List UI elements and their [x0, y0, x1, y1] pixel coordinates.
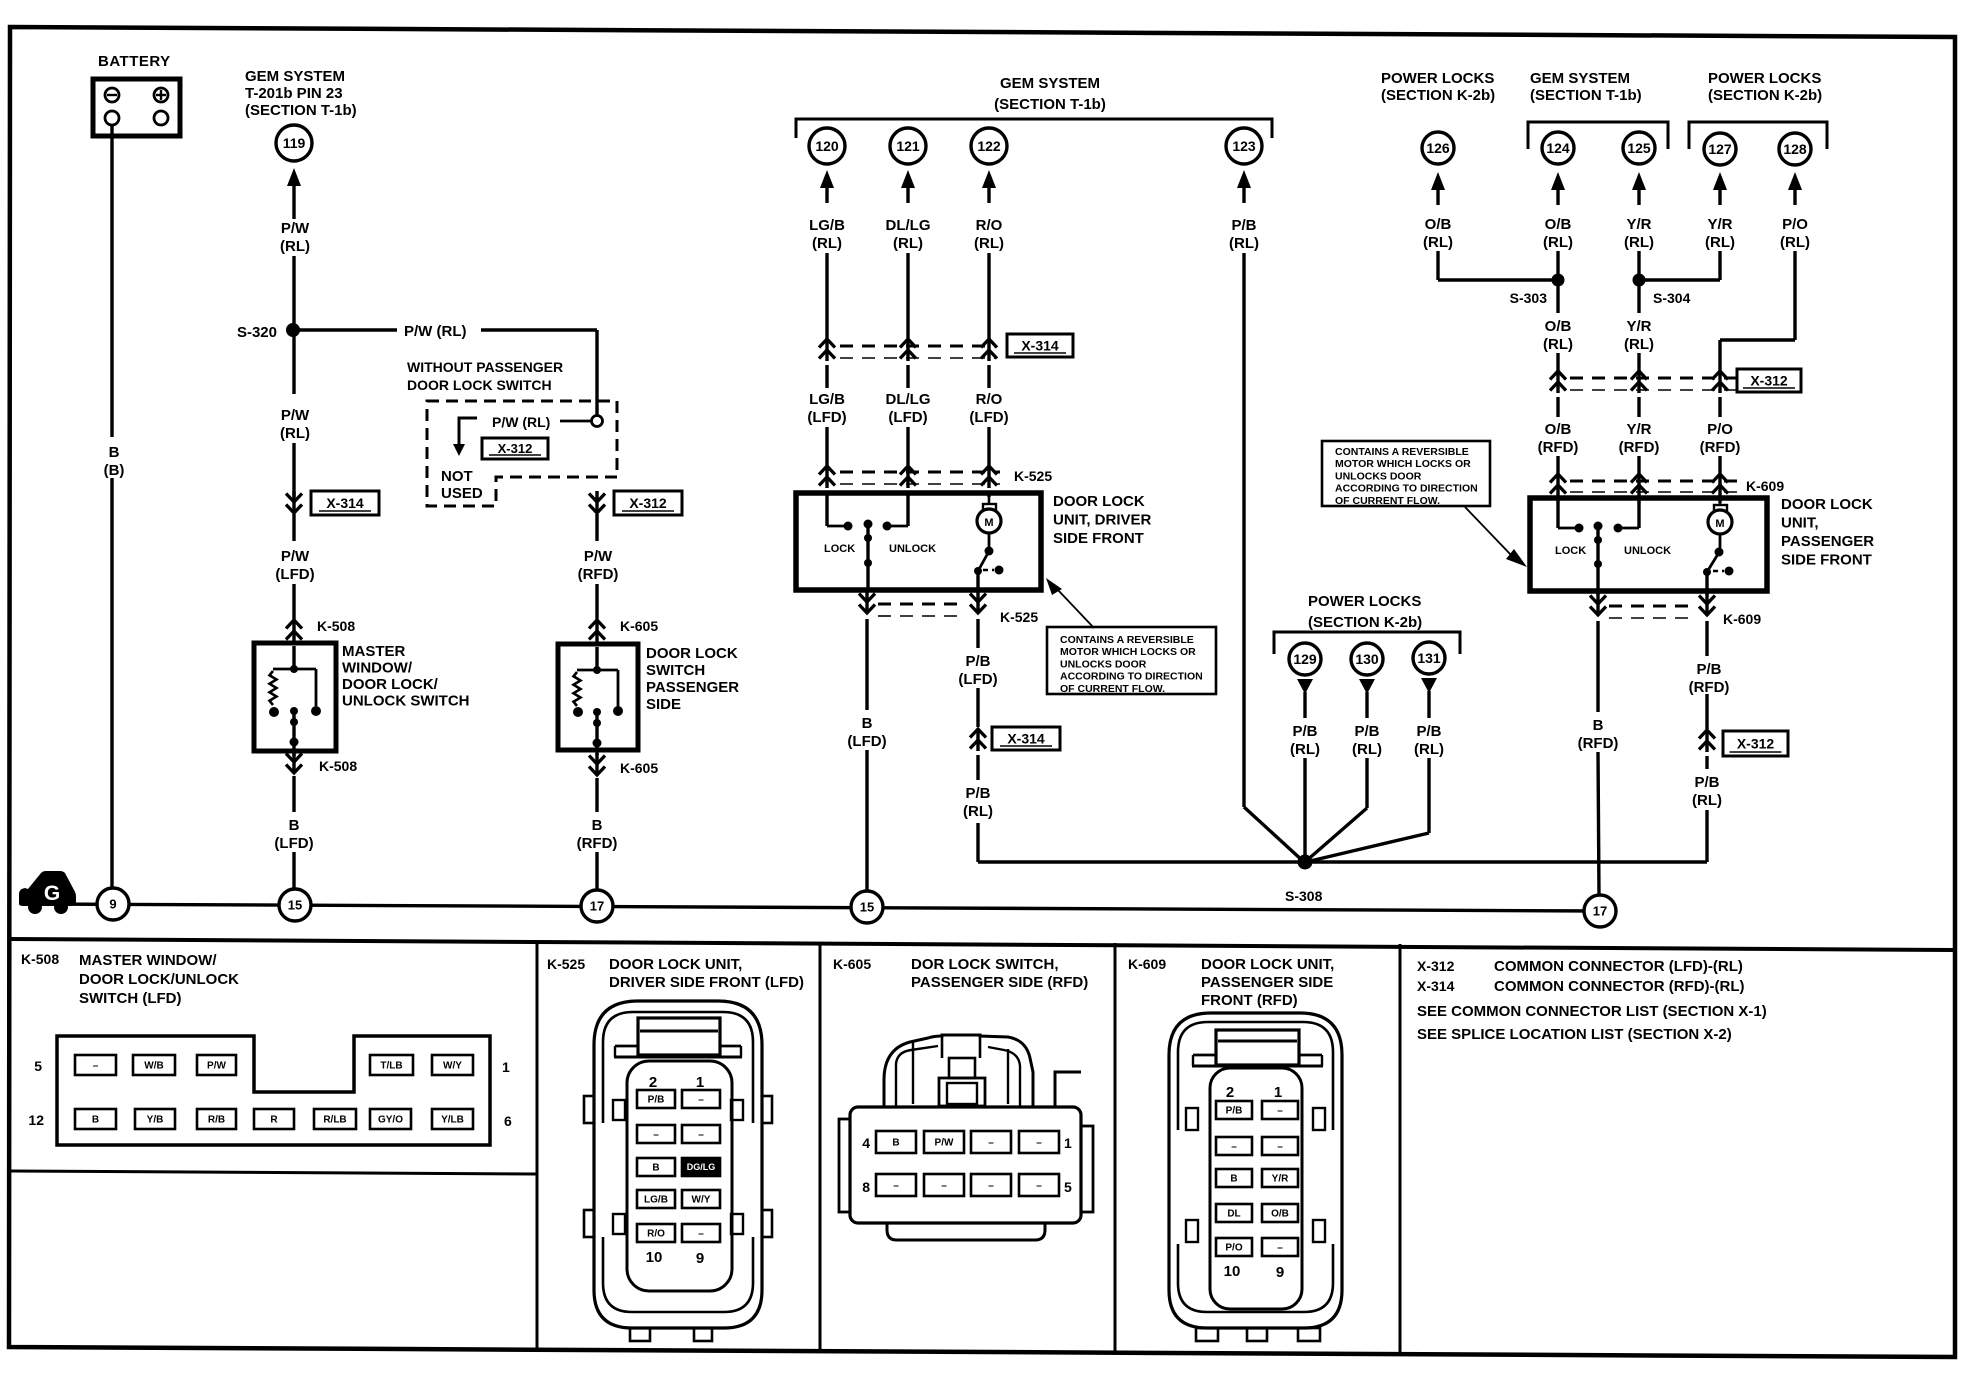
- K-605 pin r2c4: [1019, 1174, 1059, 1196]
- wire 122 into box: [987, 491, 990, 497]
- svg-text:(SECTION T-1b): (SECTION T-1b): [245, 102, 357, 119]
- arrow to 120: [820, 170, 834, 203]
- wire 127 to S-304: [1639, 251, 1720, 280]
- svg-text:R/O: R/O: [976, 391, 1003, 408]
- svg-text:K-609: K-609: [1746, 478, 1784, 494]
- svg-text:SWITCH: SWITCH: [646, 662, 705, 679]
- label door lock switch passenger: [646, 645, 739, 713]
- svg-text:DRIVER SIDE FRONT (LFD): DRIVER SIDE FRONT (LFD): [609, 974, 804, 991]
- svg-text:GEM SYSTEM: GEM SYSTEM: [1530, 70, 1630, 87]
- switch K-605 internals: [573, 647, 623, 755]
- svg-text:T-201b PIN 23: T-201b PIN 23: [245, 85, 343, 102]
- K-508 pin r2c7 Y/LB: [432, 1109, 473, 1129]
- wire 119 to S-320: [292, 256, 295, 330]
- svg-text:UNIT, DRIVER: UNIT, DRIVER: [1053, 512, 1152, 529]
- svg-text:UNLOCK: UNLOCK: [889, 543, 936, 555]
- connector X-312 single chevrons: [1699, 730, 1715, 752]
- K-605 pin r2c2: [924, 1174, 964, 1196]
- svg-text:K-525: K-525: [1014, 468, 1052, 484]
- svg-text:(RL): (RL): [1414, 741, 1444, 758]
- connector K-525 bottom chevrons: [859, 591, 986, 613]
- label without passenger door lock switch: [407, 359, 563, 393]
- svg-text:9: 9: [109, 897, 116, 912]
- svg-text:129: 129: [1293, 651, 1317, 667]
- svg-text:P/W: P/W: [584, 548, 613, 565]
- svg-text:POWER LOCKS: POWER LOCKS: [1381, 70, 1494, 87]
- label Y/R (RL) 125: [1624, 216, 1654, 251]
- svg-text:NOT: NOT: [441, 468, 473, 485]
- svg-text:B: B: [892, 1138, 899, 1149]
- svg-text:K-605: K-605: [620, 760, 658, 776]
- svg-text:(RL): (RL): [1624, 234, 1654, 251]
- svg-text:(RL): (RL): [1780, 234, 1810, 251]
- K-605 pin r1c4: [1019, 1131, 1059, 1153]
- svg-text:GY/O: GY/O: [378, 1115, 403, 1126]
- svg-text:S-303: S-303: [1510, 290, 1548, 306]
- K-605 pin r2c1: [876, 1174, 916, 1196]
- svg-text:(LFD): (LFD): [275, 566, 314, 583]
- wire 127 seg3: [1718, 456, 1721, 474]
- svg-text:UNLOCKS DOOR: UNLOCKS DOOR: [1335, 470, 1422, 482]
- svg-text:P/O: P/O: [1782, 216, 1808, 233]
- wire S-320 down: [292, 330, 295, 497]
- svg-text:COMMON CONNECTOR (LFD)-(RL): COMMON CONNECTOR (LFD)-(RL): [1494, 958, 1743, 975]
- bracket GEM middle: [796, 119, 1272, 138]
- svg-text:MOTOR WHICH LOCKS OR: MOTOR WHICH LOCKS OR: [1060, 646, 1196, 658]
- svg-text:MOTOR WHICH LOCKS OR: MOTOR WHICH LOCKS OR: [1335, 458, 1471, 470]
- K-605 connector body: [850, 1107, 1081, 1223]
- label LG/B (LFD): [807, 391, 846, 426]
- motor M driver: [974, 497, 1004, 591]
- wire to ground 17: [595, 852, 598, 889]
- svg-text:POWER LOCKS: POWER LOCKS: [1308, 593, 1421, 610]
- svg-text:X-314: X-314: [1021, 338, 1059, 354]
- svg-text:(RL): (RL): [963, 803, 993, 820]
- svg-text:DOOR LOCK/UNLOCK: DOOR LOCK/UNLOCK: [79, 971, 239, 988]
- ground node 17 right: [1584, 895, 1616, 927]
- svg-text:PASSENGER SIDE: PASSENGER SIDE: [1201, 974, 1333, 991]
- connector K-609 row chevrons: [1550, 474, 1728, 496]
- svg-text:–: –: [1277, 1142, 1283, 1153]
- wire 122 seg: [987, 253, 990, 339]
- svg-text:9: 9: [1276, 1264, 1284, 1281]
- K-609 pin cavity: [1210, 1068, 1302, 1309]
- svg-text:LG/B: LG/B: [809, 217, 845, 234]
- bottom section divider: [10, 939, 1955, 950]
- svg-text:P/B: P/B: [965, 653, 990, 670]
- bracket power locks mid: [1274, 632, 1460, 654]
- K-525 pin r3R DG/LG: [682, 1158, 720, 1176]
- svg-text:X-312: X-312: [1417, 958, 1455, 974]
- note box passenger: [1322, 441, 1490, 507]
- wire 125 seg3: [1637, 456, 1640, 474]
- wire 127 into box: [1718, 498, 1721, 503]
- svg-text:–: –: [1036, 1181, 1042, 1192]
- wire 120 seg: [825, 253, 828, 339]
- svg-text:–: –: [653, 1130, 659, 1141]
- node 122: [971, 128, 1007, 164]
- svg-text:(RFD): (RFD): [1578, 735, 1619, 752]
- wire 124 through S-303: [1556, 251, 1559, 313]
- wire S-320 branch right seg2: [481, 330, 597, 416]
- svg-text:–: –: [93, 1061, 99, 1072]
- unit passenger LOCK contact: [1555, 502, 1586, 557]
- note arrow driver: [1046, 578, 1094, 628]
- note arrow passenger: [1465, 507, 1527, 567]
- wire 121 seg: [906, 253, 909, 339]
- unit passenger switch pole: [1594, 522, 1603, 596]
- K-508 pin r2c5 R/LB: [314, 1109, 356, 1129]
- svg-text:(RL): (RL): [893, 235, 923, 252]
- svg-text:POWER LOCKS: POWER LOCKS: [1708, 70, 1821, 87]
- svg-text:Y/R: Y/R: [1626, 318, 1651, 335]
- svg-text:B: B: [1593, 717, 1604, 734]
- K-525 pin r4L LG/B: [637, 1190, 675, 1208]
- svg-text:P/O: P/O: [1707, 421, 1733, 438]
- svg-text:(RL): (RL): [974, 235, 1004, 252]
- connector X-312 left chevrons: [589, 491, 605, 513]
- svg-text:P/B: P/B: [1292, 723, 1317, 740]
- arrow from 130: [1359, 679, 1375, 718]
- wire battery B(B) upper: [110, 124, 113, 437]
- wire 124 seg3: [1556, 456, 1559, 474]
- svg-text:S-304: S-304: [1653, 290, 1691, 306]
- wire 124 into box: [1556, 498, 1559, 503]
- label B (RFD) left: [577, 817, 618, 852]
- K-525 connector inner top: [603, 1012, 753, 1123]
- K-609 bottom tabs: [1196, 1328, 1320, 1341]
- wire 120 into box: [825, 491, 828, 497]
- svg-text:1: 1: [1064, 1135, 1072, 1151]
- label K-605 title: [911, 956, 1088, 991]
- K-609 connector outer: [1169, 1013, 1342, 1328]
- wire 123 long: [1244, 253, 1304, 862]
- svg-text:PASSENGER: PASSENGER: [1781, 533, 1874, 550]
- svg-text:(SECTION K-2b): (SECTION K-2b): [1308, 614, 1422, 631]
- door lock unit driver box K-525: [796, 493, 1041, 590]
- svg-text:O/B: O/B: [1271, 1209, 1289, 1220]
- svg-text:P/W: P/W: [281, 220, 310, 237]
- ground node 15 mid: [851, 891, 883, 923]
- svg-text:(B): (B): [104, 462, 125, 479]
- connector K-609 row dashes: [1570, 481, 1740, 492]
- svg-text:12: 12: [28, 1112, 44, 1128]
- wire K-508 to label: [292, 776, 295, 812]
- svg-text:(RL): (RL): [1423, 234, 1453, 251]
- svg-text:(SECTION K-2b): (SECTION K-2b): [1708, 87, 1822, 104]
- GEM SYSTEM T-201b header: [245, 68, 357, 119]
- label LG/B (RL): [809, 217, 845, 252]
- wire S-320 branch right seg1: [293, 328, 397, 331]
- label O/B (RL) lower: [1543, 318, 1573, 353]
- K-525 pin r5L R/O: [637, 1224, 675, 1242]
- svg-text:–: –: [988, 1181, 994, 1192]
- wire 127 seg2: [1718, 397, 1721, 417]
- svg-text:120: 120: [815, 138, 839, 154]
- K-609 connector inner bottom: [1178, 1244, 1333, 1312]
- node 130: [1351, 643, 1383, 675]
- svg-text:S-320: S-320: [237, 324, 277, 341]
- svg-text:P/W: P/W: [281, 407, 310, 424]
- arrow to 127: [1713, 172, 1727, 205]
- wire 121 seg3: [906, 427, 909, 466]
- connector X-314 left label: [311, 491, 379, 515]
- bottom divider v3: [1114, 943, 1117, 1352]
- svg-text:B: B: [92, 1115, 99, 1126]
- K-525 pin r5R: [682, 1224, 720, 1242]
- wire 125 into box: [1637, 498, 1640, 503]
- connector K-508 bottom chevrons: [286, 751, 302, 773]
- svg-text:(RFD): (RFD): [578, 566, 619, 583]
- svg-text:O/B: O/B: [1545, 318, 1572, 335]
- svg-text:X-314: X-314: [1007, 731, 1045, 747]
- dashed option box: [427, 401, 617, 506]
- svg-text:USED: USED: [441, 485, 483, 502]
- svg-text:CONTAINS A REVERSIBLE: CONTAINS A REVERSIBLE: [1060, 634, 1194, 646]
- label Y/R (RL) 127: [1705, 216, 1735, 251]
- svg-text:122: 122: [977, 138, 1001, 154]
- label B (LFD): [847, 715, 886, 750]
- svg-text:DL/LG: DL/LG: [886, 217, 931, 234]
- svg-text:R/B: R/B: [208, 1115, 225, 1126]
- svg-text:5: 5: [1064, 1179, 1072, 1195]
- svg-text:LG/B: LG/B: [809, 391, 845, 408]
- svg-text:(RL): (RL): [1692, 792, 1722, 809]
- POWER LOCKS right1 header: [1381, 70, 1495, 104]
- connector K-508 top chevrons: [286, 620, 302, 642]
- svg-text:DOOR LOCK: DOOR LOCK: [1053, 493, 1145, 510]
- svg-text:W/B: W/B: [144, 1061, 163, 1072]
- svg-text:W/Y: W/Y: [443, 1061, 462, 1072]
- K-609 pin r1R: [1262, 1101, 1298, 1119]
- open node on X-312 wire: [592, 416, 603, 427]
- label K-525 title: [609, 956, 804, 991]
- label Y/R (RFD): [1619, 421, 1660, 456]
- svg-text:(RFD): (RFD): [1619, 439, 1660, 456]
- svg-text:P/B: P/B: [1354, 723, 1379, 740]
- svg-text:Y/R: Y/R: [1626, 216, 1651, 233]
- svg-text:P/W: P/W: [207, 1061, 226, 1072]
- svg-text:P/W: P/W: [281, 548, 310, 565]
- svg-text:OF CURRENT FLOW.: OF CURRENT FLOW.: [1335, 495, 1440, 507]
- label P/B (RL) 123: [1229, 217, 1259, 252]
- svg-text:P/W (RL): P/W (RL): [404, 323, 466, 340]
- wire 122 seg3: [987, 427, 990, 466]
- svg-text:1: 1: [696, 1074, 704, 1091]
- K-525 bottom tabs: [630, 1328, 712, 1341]
- GEM SYSTEM middle header: [994, 75, 1106, 113]
- svg-text:15: 15: [860, 900, 874, 915]
- svg-text:ACCORDING TO DIRECTION: ACCORDING TO DIRECTION: [1060, 671, 1203, 683]
- connector K-609 bottom chevrons: [1590, 593, 1715, 615]
- label P/W (RL) upper: [280, 220, 310, 255]
- wire S-308 to passenger: [1305, 810, 1707, 862]
- wire 128 bend: [1720, 251, 1795, 371]
- label P/B (RL) 130: [1352, 723, 1382, 758]
- svg-text:Y/LB: Y/LB: [441, 1115, 464, 1126]
- connector K-525 row dashes: [840, 472, 1000, 484]
- K-609 pin r5L P/O: [1216, 1238, 1252, 1256]
- wire to open node: [560, 420, 591, 423]
- arrow from 131: [1421, 678, 1437, 718]
- splice S-304: [1633, 274, 1691, 307]
- node 120: [809, 128, 845, 164]
- svg-text:(LFD): (LFD): [969, 409, 1008, 426]
- label P/B (RL) 131: [1414, 723, 1444, 758]
- svg-text:OF CURRENT FLOW.: OF CURRENT FLOW.: [1060, 683, 1165, 695]
- label B (RFD): [1578, 717, 1619, 752]
- node 119: [276, 125, 312, 161]
- wire 131 to S-308: [1306, 758, 1429, 862]
- svg-text:2: 2: [649, 1074, 657, 1091]
- arrow to 122: [982, 170, 996, 203]
- svg-text:SIDE: SIDE: [646, 696, 681, 713]
- svg-text:(RL): (RL): [280, 425, 310, 442]
- K-609 pin r1L P/B: [1216, 1101, 1252, 1119]
- K-508 connector outline: [57, 1036, 490, 1145]
- svg-text:4: 4: [862, 1135, 870, 1151]
- connector X-312 row chevrons: [1550, 371, 1728, 393]
- wire P/B RFD seg2: [1705, 694, 1708, 729]
- connector X-312 single label: [1723, 731, 1788, 756]
- svg-text:X-312: X-312: [1750, 373, 1788, 389]
- svg-text:(SECTION T-1b): (SECTION T-1b): [1530, 87, 1642, 104]
- svg-text:K-609: K-609: [1723, 611, 1761, 627]
- K-508 pin r2c1 B: [75, 1109, 116, 1129]
- label P/B (RL) 129: [1290, 723, 1320, 758]
- svg-text:R: R: [270, 1115, 278, 1126]
- svg-text:Y/R: Y/R: [1707, 216, 1732, 233]
- svg-text:(RL): (RL): [280, 238, 310, 255]
- svg-text:10: 10: [646, 1249, 663, 1266]
- svg-text:DOOR LOCK SWITCH: DOOR LOCK SWITCH: [407, 377, 552, 393]
- connector X-314 row chevrons: [819, 339, 997, 361]
- K-508 pin r1c4 T/LB: [370, 1055, 413, 1075]
- svg-text:(RL): (RL): [1543, 234, 1573, 251]
- K-609 pin r5R: [1262, 1238, 1298, 1256]
- svg-text:–: –: [988, 1138, 994, 1149]
- arrow to 119: [287, 168, 301, 219]
- svg-text:WITHOUT PASSENGER: WITHOUT PASSENGER: [407, 359, 563, 375]
- svg-text:LG/B: LG/B: [644, 1195, 668, 1206]
- POWER LOCKS mid header: [1308, 593, 1422, 631]
- not-used bent arrow: [453, 418, 477, 456]
- svg-text:P/B: P/B: [965, 785, 990, 802]
- svg-text:DL/LG: DL/LG: [886, 391, 931, 408]
- K-605 pin r1c1 B: [876, 1131, 916, 1153]
- svg-text:LOCK: LOCK: [1555, 545, 1586, 557]
- bracket 124-125: [1528, 122, 1668, 149]
- node 121: [890, 128, 926, 164]
- svg-text:GEM SYSTEM: GEM SYSTEM: [245, 68, 345, 85]
- K-525 side ears: [584, 1096, 772, 1237]
- label K-609 title: [1201, 956, 1334, 1009]
- label DL/LG (RL): [886, 217, 931, 252]
- K-609 pin r4L DL: [1216, 1204, 1252, 1222]
- switch K-508 internals: [269, 646, 321, 756]
- GEM SYSTEM right header: [1530, 70, 1642, 104]
- svg-text:(LFD): (LFD): [958, 671, 997, 688]
- label O/B (RFD): [1538, 421, 1579, 456]
- wire X-314 to label PW LFD: [292, 514, 295, 541]
- connector K-609 bottom dashes: [1609, 606, 1696, 618]
- svg-text:UNIT,: UNIT,: [1781, 515, 1819, 532]
- svg-text:P/B: P/B: [1231, 217, 1256, 234]
- K-508 pin r1c1: [75, 1055, 116, 1075]
- svg-text:T/LB: T/LB: [380, 1061, 402, 1072]
- label P/W (RL) left: [280, 407, 310, 442]
- label door lock unit passenger: [1781, 496, 1874, 569]
- wire 120 seg2: [825, 365, 828, 388]
- svg-text:K-605: K-605: [833, 956, 871, 972]
- svg-text:(SECTION T-1b): (SECTION T-1b): [994, 96, 1106, 113]
- svg-text:(LFD): (LFD): [847, 733, 886, 750]
- arrow to 121: [901, 170, 915, 203]
- svg-text:–: –: [1277, 1243, 1283, 1254]
- svg-text:X-312: X-312: [498, 441, 533, 456]
- label R/O (LFD): [969, 391, 1008, 426]
- svg-text:DOOR LOCK/: DOOR LOCK/: [342, 676, 439, 693]
- svg-text:–: –: [1231, 1142, 1237, 1153]
- node 131: [1413, 642, 1445, 674]
- splice S-308: [1285, 855, 1323, 905]
- connector K-525 bottom dashes: [878, 604, 966, 616]
- K-605 bottom tab: [887, 1223, 1045, 1240]
- svg-text:–: –: [698, 1095, 704, 1106]
- wire to ground 15: [292, 852, 295, 889]
- wire 121 seg2: [906, 365, 909, 388]
- node 129: [1289, 643, 1321, 675]
- connector X-314 row label: [1007, 334, 1073, 357]
- label Y/R (RL) lower: [1624, 318, 1654, 353]
- svg-text:(RFD): (RFD): [1538, 439, 1579, 456]
- label P/O (RFD): [1700, 421, 1741, 456]
- svg-text:6: 6: [504, 1113, 512, 1129]
- K-508 pin r1c5 W/Y: [432, 1055, 473, 1075]
- wire P/B LFD seg2: [976, 688, 979, 727]
- svg-text:WINDOW/: WINDOW/: [342, 660, 413, 677]
- svg-text:B: B: [1230, 1174, 1237, 1185]
- svg-text:123: 123: [1232, 138, 1256, 154]
- svg-text:DOOR LOCK UNIT,: DOOR LOCK UNIT,: [609, 956, 742, 973]
- unit driver UNLOCK contact: [883, 497, 937, 555]
- K-609 pin r3L B: [1216, 1169, 1252, 1187]
- connector X-314 left chevrons: [286, 491, 302, 513]
- wire B LFD seg2: [865, 750, 868, 890]
- svg-text:(RL): (RL): [1705, 234, 1735, 251]
- wire 129 to S-308: [1303, 758, 1306, 864]
- node 125: [1623, 132, 1655, 164]
- svg-text:GEM SYSTEM: GEM SYSTEM: [1000, 75, 1100, 92]
- K-525 pin r2R: [682, 1125, 720, 1143]
- svg-text:P/W (RL): P/W (RL): [492, 414, 550, 430]
- svg-text:R/LB: R/LB: [323, 1115, 346, 1126]
- K-508 pin r2c3 R/B: [197, 1109, 236, 1129]
- svg-text:DOOR LOCK: DOOR LOCK: [646, 645, 738, 662]
- svg-text:–: –: [941, 1181, 947, 1192]
- svg-text:17: 17: [1593, 904, 1607, 919]
- svg-text:Y/B: Y/B: [147, 1115, 164, 1126]
- ground node 9: [97, 888, 129, 920]
- connector X-312 left label: [614, 491, 682, 515]
- K-605 pin r2c3: [971, 1174, 1011, 1196]
- svg-text:15: 15: [288, 898, 302, 913]
- svg-text:COMMON CONNECTOR (RFD)-(RL): COMMON CONNECTOR (RFD)-(RL): [1494, 978, 1745, 995]
- connector X-312 row dashes: [1570, 378, 1736, 390]
- svg-text:127: 127: [1708, 141, 1732, 157]
- splice S-320: [237, 323, 300, 341]
- node 128: [1779, 133, 1811, 165]
